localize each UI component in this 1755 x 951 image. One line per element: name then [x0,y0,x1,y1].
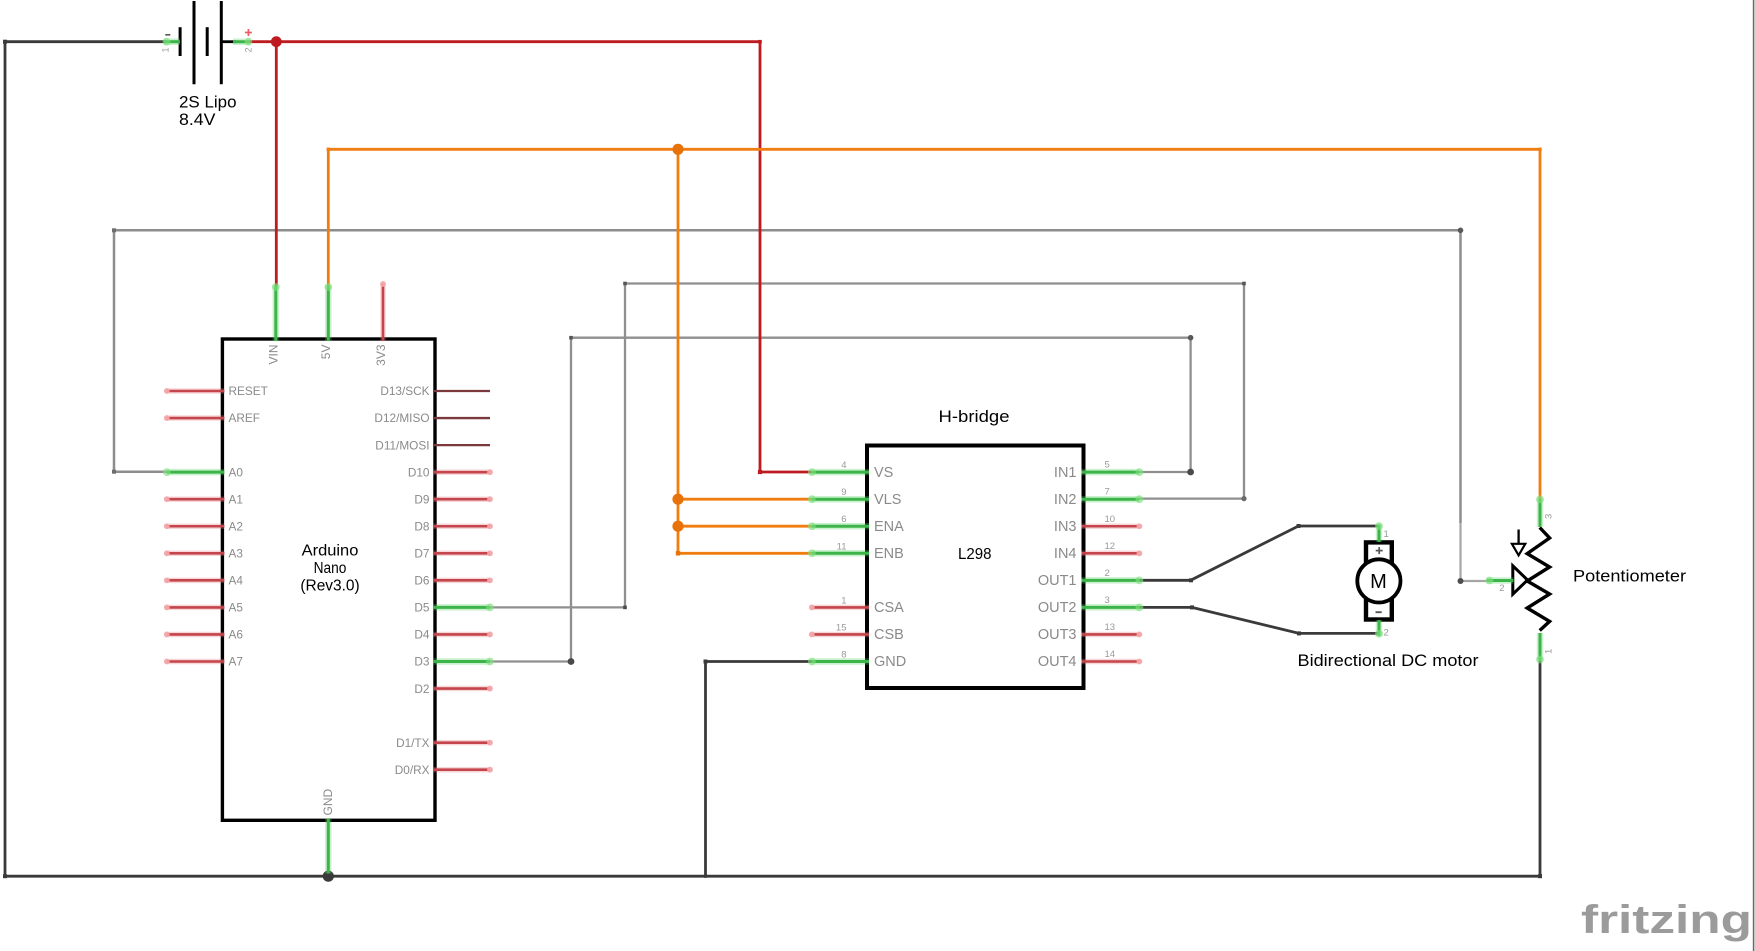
svg-text:1: 1 [1544,649,1555,654]
svg-text:8: 8 [841,650,846,661]
svg-text:CSA: CSA [874,600,904,616]
svg-text:VS: VS [874,465,893,481]
svg-text:D4: D4 [414,628,430,642]
svg-text:3: 3 [1544,514,1555,519]
svg-text:A6: A6 [229,628,244,642]
svg-text:D8: D8 [414,520,430,534]
svg-text:D0/RX: D0/RX [395,763,430,777]
svg-text:1: 1 [161,47,171,52]
svg-text:Nano: Nano [314,560,347,577]
svg-text:A5: A5 [229,601,244,615]
svg-text:7: 7 [1105,487,1110,498]
svg-text:Potentiometer: Potentiometer [1573,567,1686,586]
svg-text:2: 2 [1384,628,1389,639]
svg-text:2: 2 [1499,583,1504,594]
svg-text:11: 11 [837,541,847,552]
svg-text:CSB: CSB [874,627,904,643]
svg-text:3V3: 3V3 [374,344,388,366]
svg-text:5: 5 [1105,460,1110,471]
svg-text:D5: D5 [414,601,430,615]
svg-text:D7: D7 [414,547,429,561]
svg-text:GND: GND [874,654,906,670]
svg-text:VIN: VIN [267,345,281,365]
svg-text:4: 4 [841,460,846,471]
svg-text:D12/MISO: D12/MISO [374,411,429,425]
svg-text:13: 13 [1105,622,1116,633]
svg-text:8.4V: 8.4V [179,111,216,129]
svg-text:D6: D6 [414,574,430,588]
svg-text:1: 1 [841,595,846,606]
svg-text:1: 1 [1384,529,1389,540]
svg-text:15: 15 [836,623,847,634]
svg-text:2: 2 [244,47,254,52]
svg-text:OUT4: OUT4 [1038,654,1077,670]
svg-text:D13/SCK: D13/SCK [380,384,429,398]
svg-text:Arduino: Arduino [302,543,359,560]
svg-text:H-bridge: H-bridge [939,408,1010,426]
svg-text:ENA: ENA [874,519,904,535]
svg-text:ENB: ENB [874,546,904,562]
svg-text:IN2: IN2 [1054,492,1077,508]
svg-text:OUT2: OUT2 [1038,600,1077,616]
svg-text:A4: A4 [229,574,244,588]
svg-text:RESET: RESET [229,384,268,398]
svg-text:A0: A0 [229,465,244,479]
svg-text:5V: 5V [319,345,333,360]
svg-text:fritzing: fritzing [1581,898,1752,942]
svg-text:A3: A3 [229,547,244,561]
svg-text:IN3: IN3 [1054,519,1077,535]
svg-text:D3: D3 [414,655,430,669]
svg-text:2S Lipo: 2S Lipo [179,94,237,112]
svg-text:OUT3: OUT3 [1038,627,1077,643]
svg-text:10: 10 [1105,514,1116,525]
svg-text:AREF: AREF [229,411,260,425]
svg-text:2: 2 [1105,568,1110,579]
svg-text:A1: A1 [229,492,243,506]
svg-text:D2: D2 [414,682,429,696]
svg-text:IN1: IN1 [1054,465,1077,481]
svg-text:M: M [1370,571,1387,593]
svg-text:Bidirectional DC motor: Bidirectional DC motor [1298,651,1479,670]
svg-text:VLS: VLS [874,492,901,508]
svg-text:L298: L298 [958,546,992,563]
svg-text:A2: A2 [229,520,243,534]
svg-text:D10: D10 [408,465,430,479]
svg-text:OUT1: OUT1 [1038,573,1077,589]
svg-text:6: 6 [841,514,846,525]
svg-text:9: 9 [841,487,846,498]
svg-text:A7: A7 [229,655,243,669]
svg-text:D1/TX: D1/TX [396,736,430,750]
svg-text:D11/MOSI: D11/MOSI [375,438,429,452]
svg-text:IN4: IN4 [1054,546,1077,562]
svg-text:GND: GND [321,789,335,816]
svg-text:D9: D9 [414,492,429,506]
svg-text:14: 14 [1105,649,1116,660]
svg-text:3: 3 [1105,595,1110,606]
svg-text:12: 12 [1105,541,1116,552]
svg-text:(Rev3.0): (Rev3.0) [300,578,359,595]
